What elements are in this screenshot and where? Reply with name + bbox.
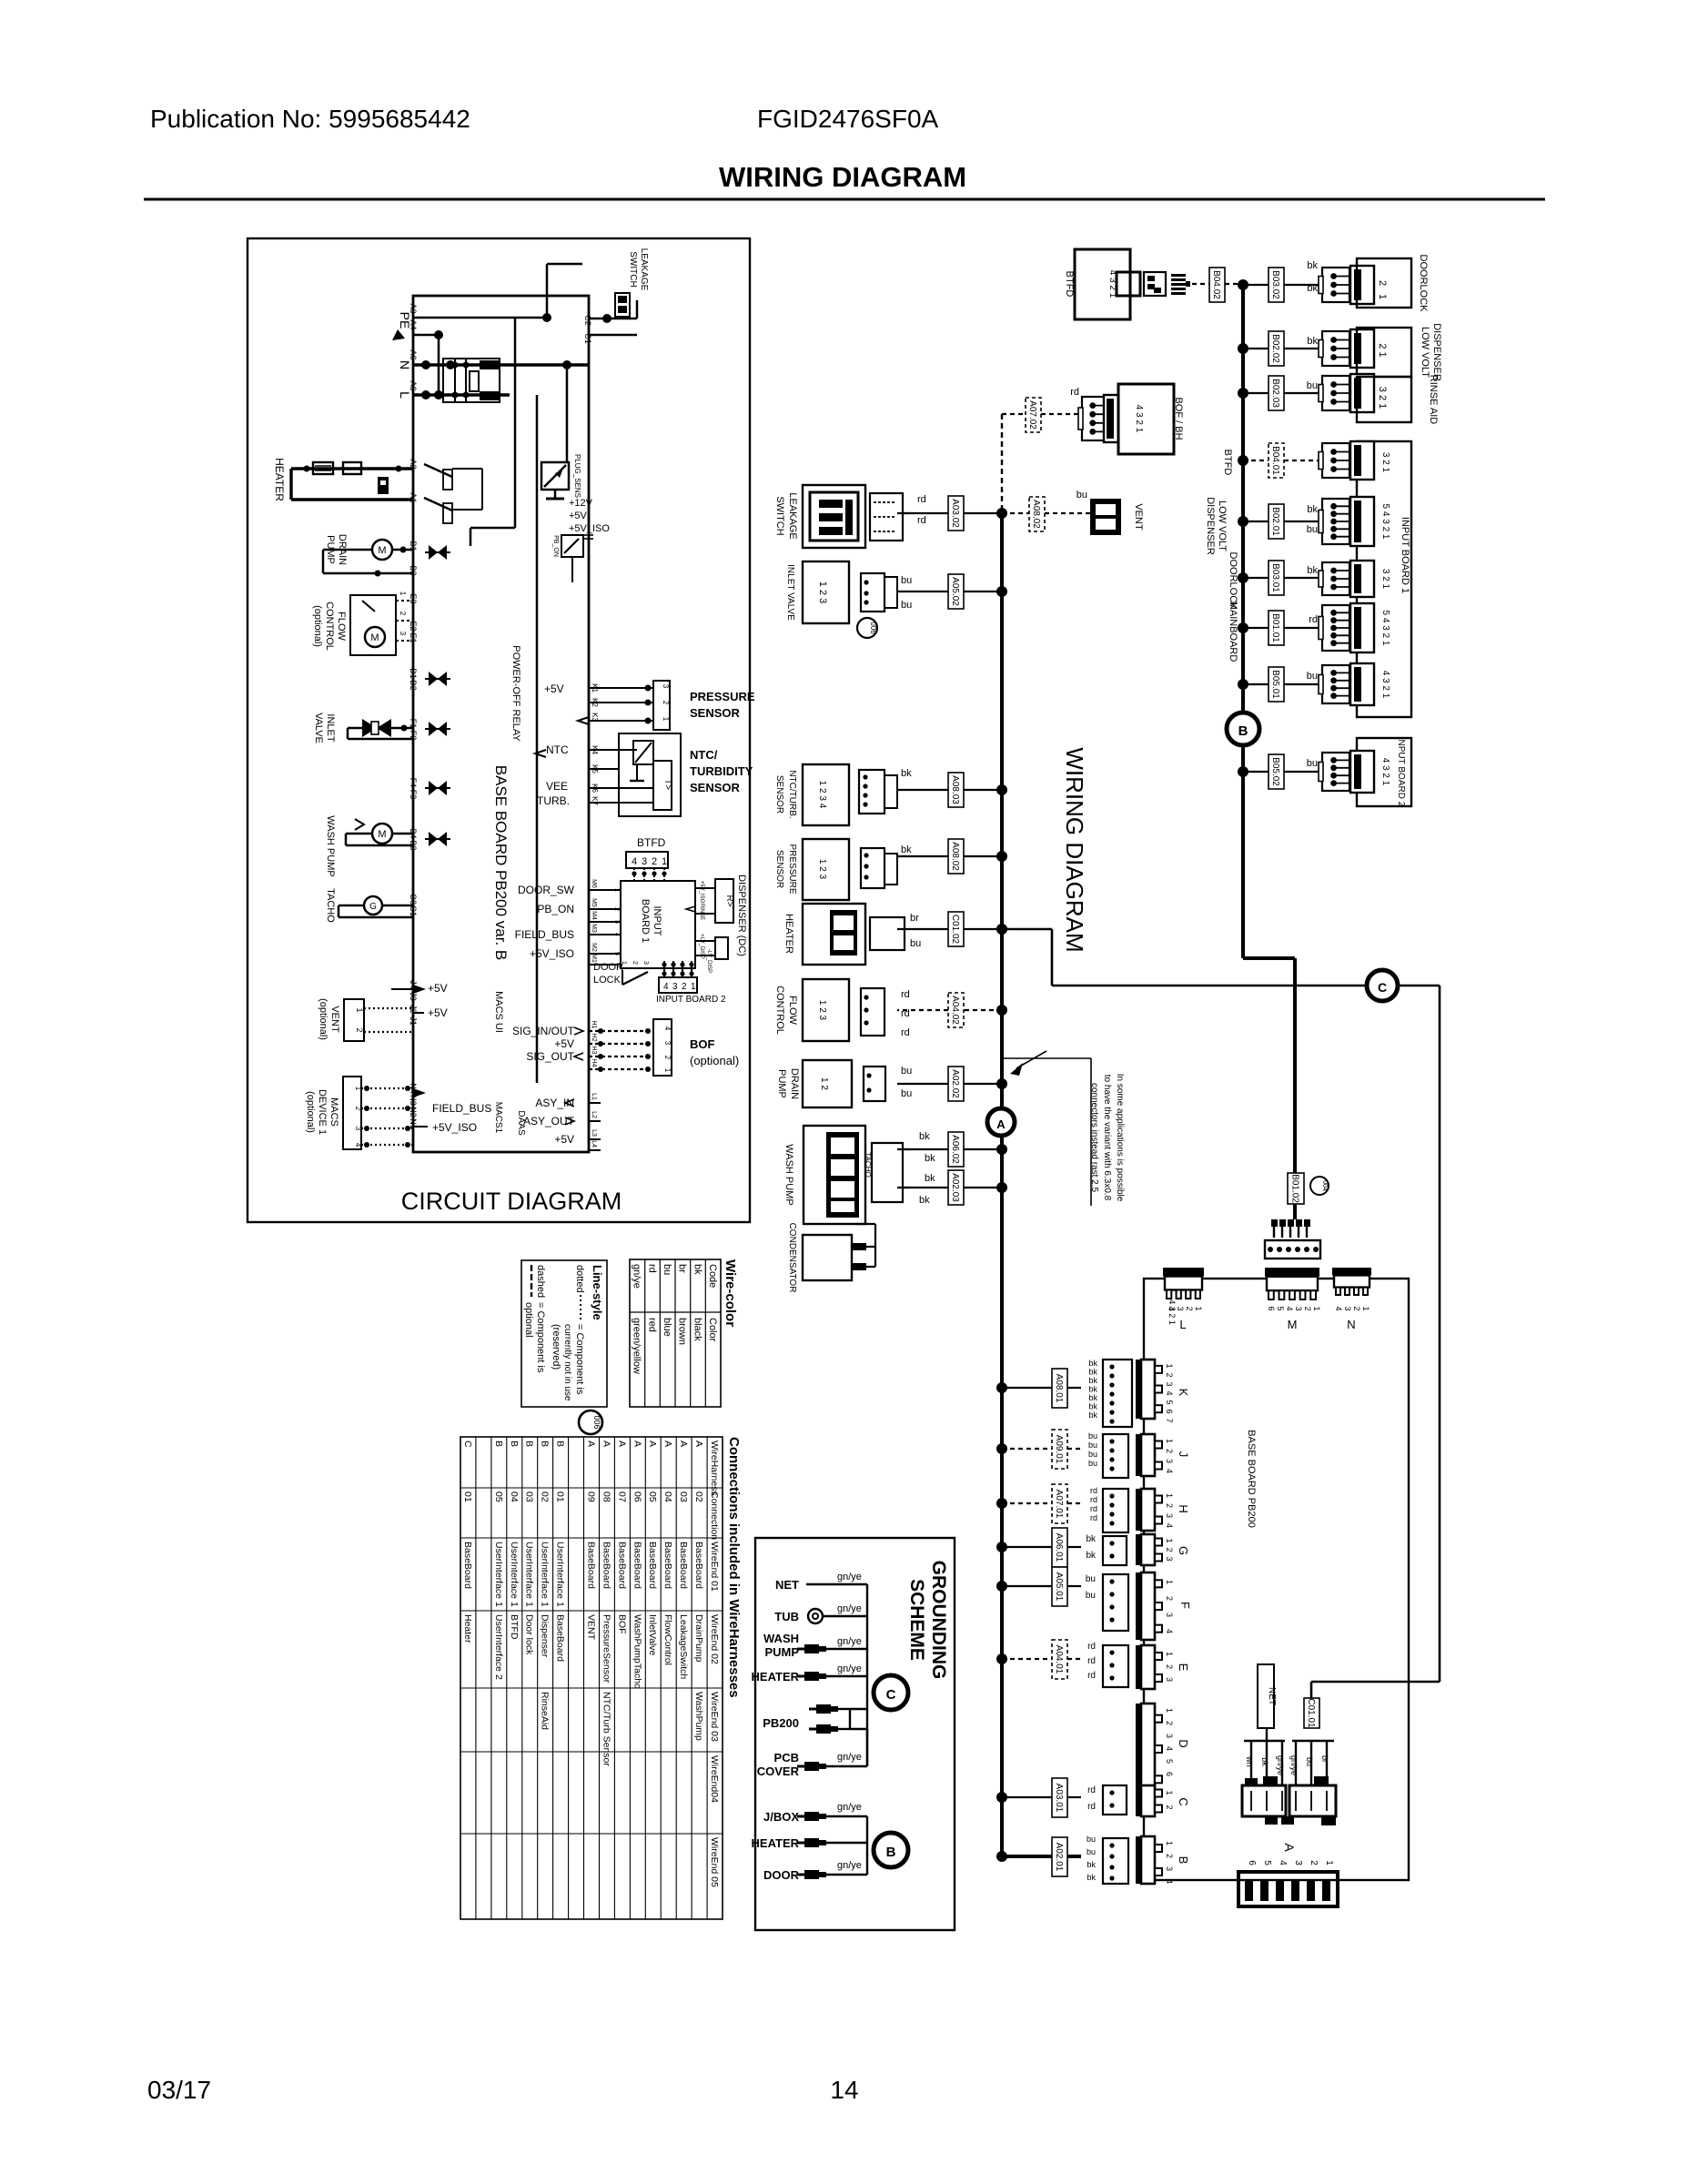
svg-text:F4: F4 — [409, 778, 418, 788]
svg-text:BASE BOARD PB200 var. B: BASE BOARD PB200 var. B — [492, 765, 510, 960]
svg-text:+5V: +5V — [544, 682, 564, 695]
svg-text:1: 1 — [1165, 1790, 1174, 1795]
svg-text:rd: rd — [901, 1027, 910, 1038]
svg-text:2: 2 — [663, 1056, 672, 1060]
svg-text:C2: C2 — [583, 315, 592, 326]
svg-text:bk: bk — [1088, 1385, 1097, 1394]
svg-text:SENSOR: SENSOR — [774, 850, 784, 888]
svg-text:A08.03: A08.03 — [950, 775, 960, 804]
svg-text:A08.01: A08.01 — [1054, 1374, 1064, 1403]
svg-text:rd: rd — [1087, 1642, 1096, 1652]
svg-text:FGID2476SF0A: FGID2476SF0A — [757, 105, 939, 133]
svg-text:bk: bk — [1307, 565, 1318, 576]
svg-text:A09.01: A09.01 — [1054, 1435, 1064, 1464]
svg-text:HEATER: HEATER — [752, 1836, 800, 1850]
svg-text:H: H — [1177, 1504, 1190, 1512]
svg-text:3: 3 — [1165, 1613, 1174, 1617]
svg-text:BaseBoard: BaseBoard — [678, 1542, 689, 1589]
svg-text:WASH PUMP: WASH PUMP — [325, 815, 336, 876]
svg-text:B04.02: B04.02 — [1211, 270, 1221, 299]
svg-text:H2: H2 — [591, 1034, 597, 1042]
svg-text:gn/ye: gn/ye — [837, 1802, 862, 1813]
svg-text:06: 06 — [632, 1491, 642, 1502]
svg-text:1 2 3: 1 2 3 — [817, 581, 828, 603]
svg-text:WireHarness: WireHarness — [709, 1441, 720, 1496]
svg-text:bk: bk — [1087, 1860, 1096, 1869]
svg-text:M2: M2 — [591, 943, 597, 952]
svg-text:bu: bu — [1086, 1574, 1096, 1584]
svg-text:UserInterface 1: UserInterface 1 — [524, 1542, 535, 1607]
svg-text:BaseBoard: BaseBoard — [662, 1542, 673, 1589]
svg-text:3 2 1: 3 2 1 — [1377, 387, 1388, 409]
svg-text:bk: bk — [692, 1264, 702, 1275]
svg-text:03: 03 — [678, 1491, 689, 1502]
svg-text:2: 2 — [1165, 1503, 1174, 1508]
svg-text:6: 6 — [1165, 1772, 1174, 1776]
svg-text:TACHO: TACHO — [864, 1152, 872, 1177]
svg-text:5: 5 — [1262, 1860, 1272, 1865]
svg-text:006: 006 — [869, 622, 877, 634]
svg-text:+5V: +5V — [554, 1133, 574, 1146]
svg-text:M: M — [378, 829, 386, 840]
svg-text:DRAIN: DRAIN — [789, 1068, 800, 1099]
svg-text:2: 2 — [1165, 1372, 1174, 1377]
svg-text:bu: bu — [1088, 1450, 1097, 1459]
svg-text:1 2: 1 2 — [819, 1077, 829, 1090]
svg-text:MACS1: MACS1 — [493, 1102, 503, 1134]
svg-text:MACS UI: MACS UI — [493, 991, 504, 1033]
svg-text:bu: bu — [901, 1088, 912, 1099]
svg-text:A08.02: A08.02 — [1031, 500, 1041, 529]
svg-text:E2: E2 — [409, 621, 418, 631]
svg-text:SENSOR: SENSOR — [690, 781, 741, 794]
svg-text:rd: rd — [917, 494, 926, 505]
svg-text:2: 2 — [682, 982, 687, 992]
svg-text:+5V_ISO: +5V_ISO — [530, 947, 574, 960]
svg-text:In some applications is possib: In some applications is possible — [1115, 1074, 1125, 1202]
svg-text:bu: bu — [1307, 758, 1318, 769]
svg-text:bk: bk — [901, 768, 912, 779]
svg-text:+5V: +5V — [428, 982, 448, 995]
svg-text:WASH: WASH — [763, 1632, 799, 1645]
svg-text:rd: rd — [1087, 1656, 1096, 1666]
svg-text:Dispenser: Dispenser — [540, 1614, 551, 1658]
svg-text:SWITCH: SWITCH — [628, 251, 638, 287]
svg-text:J/BOX: J/BOX — [763, 1810, 799, 1824]
svg-text:L4: L4 — [591, 1140, 597, 1148]
svg-text:5 4 3 2 1: 5 4 3 2 1 — [1380, 504, 1390, 540]
svg-text:bk: bk — [1088, 1402, 1097, 1411]
svg-text:4: 4 — [1165, 1390, 1174, 1395]
svg-text:3: 3 — [642, 961, 649, 965]
svg-text:bu: bu — [901, 575, 912, 586]
svg-text:N: N — [1347, 1318, 1355, 1331]
svg-text:bu: bu — [910, 938, 921, 949]
svg-text:B02.02: B02.02 — [1270, 334, 1280, 363]
svg-text:L: L — [1179, 1318, 1186, 1331]
svg-text:BTFD: BTFD — [1222, 450, 1233, 476]
svg-text:02: 02 — [540, 1491, 551, 1502]
svg-text:G1: G1 — [409, 905, 418, 916]
svg-text:HEATER: HEATER — [273, 458, 286, 501]
svg-text:01: 01 — [555, 1491, 566, 1502]
svg-text:D: D — [1177, 1739, 1190, 1747]
svg-text:6: 6 — [1267, 1306, 1276, 1310]
svg-text:L2: L2 — [591, 1111, 597, 1118]
svg-text:RINSE AID: RINSE AID — [1428, 375, 1439, 424]
svg-text:C: C — [1378, 980, 1387, 995]
svg-text:4: 4 — [663, 982, 669, 992]
svg-text:NTC/TURB.: NTC/TURB. — [787, 770, 797, 818]
svg-text:4: 4 — [1334, 1306, 1343, 1310]
svg-text:3: 3 — [1294, 1306, 1303, 1310]
svg-text:2: 2 — [652, 856, 657, 867]
svg-text:BaseBoard: BaseBoard — [555, 1614, 566, 1662]
svg-text:C: C — [462, 1441, 473, 1448]
svg-text:A1: A1 — [409, 492, 418, 502]
svg-text:bk: bk — [1086, 1551, 1097, 1561]
svg-text:Publication No: 5995685442: Publication No: 5995685442 — [150, 105, 470, 133]
svg-text:bk: bk — [1088, 1368, 1097, 1377]
svg-text:bk: bk — [1307, 336, 1318, 347]
svg-text:09: 09 — [586, 1491, 597, 1502]
svg-text:3: 3 — [399, 632, 407, 636]
svg-text:3: 3 — [1176, 1306, 1185, 1310]
svg-text:B04.01: B04.01 — [1270, 446, 1280, 475]
svg-text:BaseBoard: BaseBoard — [632, 1542, 642, 1589]
svg-text:InletValve: InletValve — [647, 1614, 658, 1655]
svg-text:bu: bu — [1088, 1459, 1097, 1468]
svg-text:to have the variant with 6.3x0: to have the variant with 6.3x0.8 — [1102, 1075, 1112, 1201]
svg-text:LEAKAGE: LEAKAGE — [787, 492, 798, 539]
svg-text:BASE BOARD PB200: BASE BOARD PB200 — [1246, 1430, 1257, 1528]
svg-text:C01.02: C01.02 — [950, 915, 960, 945]
svg-text:+5V: +5V — [428, 1006, 448, 1019]
svg-text:4 3 2 1: 4 3 2 1 — [1167, 1299, 1177, 1325]
svg-text:BaseBoard: BaseBoard — [601, 1542, 612, 1589]
svg-text:H1: H1 — [591, 1021, 597, 1029]
svg-text:G3: G3 — [409, 894, 418, 905]
svg-text:2: 2 — [1165, 1664, 1174, 1669]
svg-text:D1: D1 — [409, 668, 418, 679]
svg-text:LEAKAGE: LEAKAGE — [639, 248, 649, 291]
svg-text:3: 3 — [354, 1127, 362, 1131]
svg-text:PB_ON: PB_ON — [552, 535, 559, 557]
svg-text:R>: R> — [724, 895, 734, 906]
svg-text:3: 3 — [1165, 1513, 1174, 1518]
svg-text:1: 1 — [662, 856, 667, 867]
svg-text:03/17: 03/17 — [147, 2076, 211, 2104]
svg-text:3: 3 — [1165, 1459, 1174, 1463]
svg-text:black: black — [692, 1318, 702, 1341]
svg-text:(optional): (optional) — [312, 605, 323, 647]
svg-text:3: 3 — [1165, 1381, 1174, 1386]
svg-text:+5V: +5V — [554, 1037, 574, 1050]
svg-text:bu: bu — [1088, 1431, 1097, 1441]
svg-text:2: 2 — [1352, 1306, 1361, 1310]
svg-text:CIRCUIT DIAGRAM: CIRCUIT DIAGRAM — [401, 1188, 622, 1215]
svg-text:M3: M3 — [591, 924, 597, 933]
svg-text:2: 2 — [1185, 1306, 1194, 1310]
svg-text:G: G — [369, 902, 377, 912]
svg-text:TURB.: TURB. — [537, 794, 570, 807]
svg-text:K: K — [1177, 1389, 1190, 1397]
svg-text:K7: K7 — [591, 796, 599, 805]
svg-text:1: 1 — [662, 717, 670, 722]
svg-text:rd: rd — [1087, 1671, 1096, 1681]
svg-text:Heater: Heater — [462, 1614, 473, 1643]
svg-text:6: 6 — [1165, 1409, 1174, 1413]
svg-text:A03.02: A03.02 — [950, 499, 960, 528]
svg-text:5: 5 — [613, 952, 620, 955]
svg-text:INPUT BOARD 1: INPUT BOARD 1 — [1400, 517, 1410, 593]
svg-text:= Component is: = Component is — [535, 1302, 546, 1373]
svg-text:BaseBoard: BaseBoard — [586, 1542, 597, 1589]
svg-text:gn/ye: gn/ye — [837, 1663, 862, 1674]
svg-text:FLOW: FLOW — [787, 996, 798, 1025]
svg-text:2: 2 — [354, 1107, 362, 1111]
svg-text:LOW VOLT: LOW VOLT — [1217, 500, 1228, 551]
svg-text:3: 3 — [1165, 1677, 1174, 1682]
svg-text:L: L — [398, 391, 412, 399]
svg-text:3: 3 — [663, 1041, 672, 1046]
svg-text:HEATER: HEATER — [783, 914, 794, 954]
svg-text:2 1: 2 1 — [1377, 343, 1388, 357]
svg-text:bk: bk — [1088, 1410, 1097, 1420]
svg-text:B02.01: B02.01 — [1270, 507, 1280, 536]
svg-text:04: 04 — [509, 1491, 520, 1502]
svg-text:SENSOR: SENSOR — [774, 775, 784, 814]
svg-text:05: 05 — [647, 1491, 658, 1502]
svg-text:1: 1 — [1324, 1860, 1334, 1865]
svg-text:LOW VOLT: LOW VOLT — [1420, 327, 1430, 378]
svg-text:ASY_IN: ASY_IN — [535, 1097, 574, 1109]
svg-text:bk: bk — [1307, 260, 1318, 271]
svg-text:4: 4 — [663, 1026, 672, 1031]
svg-text:4: 4 — [1165, 1469, 1174, 1473]
svg-text:LOCK: LOCK — [593, 975, 622, 986]
svg-text:A04.02: A04.02 — [950, 996, 960, 1025]
svg-text:SIG_IN/OUT: SIG_IN/OUT — [512, 1025, 575, 1037]
svg-text:bu: bu — [901, 600, 912, 611]
svg-text:A02.03: A02.03 — [950, 1173, 960, 1202]
svg-text:3: 3 — [1293, 1860, 1303, 1865]
svg-text:-LV_DISP: -LV_DISP — [706, 949, 712, 973]
svg-text:3: 3 — [1165, 1734, 1174, 1738]
svg-text:E: E — [1177, 1663, 1190, 1672]
svg-text:Line-style: Line-style — [591, 1265, 604, 1320]
svg-text:4: 4 — [1285, 1306, 1294, 1310]
svg-text:dotted: dotted — [574, 1265, 585, 1293]
svg-text:1: 1 — [1165, 1493, 1174, 1498]
svg-text:bk: bk — [1088, 1393, 1097, 1402]
svg-text:UserInterface 1: UserInterface 1 — [509, 1542, 520, 1607]
svg-text:bk: bk — [919, 1195, 930, 1206]
svg-text:A02.01: A02.01 — [1054, 1843, 1064, 1872]
svg-text:bu: bu — [662, 1264, 672, 1275]
svg-text:5: 5 — [1165, 1759, 1174, 1764]
svg-text:L1: L1 — [591, 1093, 597, 1100]
svg-text:T>: T> — [662, 779, 672, 790]
svg-text:TACHO: TACHO — [325, 888, 336, 923]
svg-text:A06.01: A06.01 — [1054, 1533, 1064, 1562]
svg-text:bu: bu — [1086, 1591, 1096, 1601]
svg-text:NTC: NTC — [546, 743, 569, 756]
svg-text:rd: rd — [1087, 1785, 1096, 1795]
svg-text:03: 03 — [524, 1491, 535, 1502]
svg-text:DOOR: DOOR — [593, 962, 623, 973]
svg-text:NTC/Turb Sensor: NTC/Turb Sensor — [601, 1692, 612, 1766]
svg-text:05: 05 — [493, 1491, 504, 1502]
svg-text:Connections included in WireHa: Connections included in WireHarnesses — [726, 1437, 742, 1698]
svg-text:LeakageSwitch: LeakageSwitch — [678, 1614, 689, 1679]
svg-text:C01.01: C01.01 — [1306, 1698, 1316, 1728]
svg-text:DOORLOCK: DOORLOCK — [1418, 255, 1429, 313]
svg-text:2: 2 — [1303, 1306, 1312, 1310]
svg-text:SIG_OUT: SIG_OUT — [526, 1050, 574, 1063]
svg-text:PUMP: PUMP — [776, 1069, 787, 1098]
svg-text:1: 1 — [1165, 1652, 1174, 1656]
svg-text:gn/ye: gn/ye — [837, 1636, 862, 1647]
svg-text:PE: PE — [398, 312, 412, 329]
svg-text:B: B — [555, 1441, 566, 1447]
svg-text:H3: H3 — [591, 1046, 597, 1055]
svg-text:TURBIDITY: TURBIDITY — [690, 764, 753, 778]
svg-text:C: C — [886, 1687, 896, 1703]
svg-text:F: F — [1178, 1602, 1192, 1609]
svg-text:green/yellow: green/yellow — [632, 1318, 642, 1374]
svg-text:A03.01: A03.01 — [1054, 1784, 1064, 1813]
svg-text:rd: rd — [646, 1264, 657, 1273]
svg-text:bk: bk — [925, 1153, 935, 1164]
svg-text:FlowControl: FlowControl — [662, 1614, 673, 1665]
svg-text:M: M — [1288, 1318, 1298, 1331]
svg-text:02: 02 — [693, 1491, 704, 1502]
svg-text:1: 1 — [1165, 1708, 1174, 1713]
svg-text:WireEnd 02: WireEnd 02 — [709, 1614, 720, 1664]
svg-text:1: 1 — [691, 982, 696, 992]
svg-text:currently not in use: currently not in use — [562, 1324, 572, 1401]
svg-text:B01.02: B01.02 — [1290, 1174, 1300, 1203]
svg-text:4 3 2 1: 4 3 2 1 — [1134, 405, 1144, 433]
svg-text:DISPENSER: DISPENSER — [1205, 497, 1216, 555]
svg-text:1: 1 — [1194, 1306, 1203, 1310]
svg-text:connectors instead rast 2.5: connectors instead rast 2.5 — [1089, 1083, 1099, 1193]
svg-text:3: 3 — [613, 920, 620, 924]
svg-text:(optional): (optional) — [318, 998, 329, 1040]
svg-text:A07.01: A07.01 — [1054, 1490, 1064, 1519]
svg-text:CONTROL: CONTROL — [324, 602, 335, 651]
svg-text:rd: rd — [1087, 1802, 1096, 1812]
svg-text:2: 2 — [399, 612, 407, 616]
svg-text:dashed: dashed — [535, 1265, 546, 1298]
svg-text:Color: Color — [707, 1318, 718, 1342]
svg-text:3 2 1: 3 2 1 — [1380, 452, 1390, 473]
svg-text:FLOW: FLOW — [336, 612, 347, 641]
svg-text:rd: rd — [917, 515, 926, 526]
svg-text:3: 3 — [672, 982, 678, 992]
svg-text:rd: rd — [1090, 1486, 1097, 1495]
svg-text:gn/ye: gn/ye — [837, 1603, 862, 1614]
svg-text:A6: A6 — [409, 380, 418, 390]
svg-text:Wire-color: Wire-color — [723, 1259, 738, 1327]
svg-text:2: 2 — [613, 907, 620, 911]
svg-text:4: 4 — [1165, 1746, 1174, 1751]
svg-text:PCB: PCB — [774, 1751, 799, 1764]
svg-text:M4: M4 — [591, 911, 597, 920]
svg-text:NET: NET — [775, 1578, 799, 1592]
svg-text:bk: bk — [1088, 1376, 1097, 1385]
svg-text:B01.01: B01.01 — [1270, 613, 1280, 642]
svg-text:bu: bu — [1305, 1757, 1314, 1766]
svg-text:WIRING DIAGRAM: WIRING DIAGRAM — [719, 161, 966, 193]
svg-text:3: 3 — [1165, 1556, 1174, 1561]
svg-text:B03.02: B03.02 — [1270, 270, 1280, 299]
svg-text:006: 006 — [592, 1415, 601, 1429]
svg-text:3: 3 — [1343, 1306, 1352, 1310]
svg-text:+5V_ISO: +5V_ISO — [699, 881, 704, 904]
svg-text:1: 1 — [1165, 1363, 1174, 1368]
svg-text:bk: bk — [1088, 1359, 1097, 1368]
svg-text:bu: bu — [1087, 1835, 1096, 1844]
svg-text:bk: bk — [925, 1173, 935, 1184]
svg-text:TUB: TUB — [774, 1610, 799, 1623]
svg-text:01: 01 — [462, 1491, 473, 1502]
svg-text:VEE: VEE — [546, 780, 568, 793]
svg-text:5 4 3 2 1: 5 4 3 2 1 — [1380, 611, 1390, 646]
svg-text:bu: bu — [1307, 380, 1318, 391]
svg-text:SENSOR: SENSOR — [690, 706, 741, 720]
svg-text:BTFD: BTFD — [509, 1614, 520, 1640]
svg-text:br: br — [1320, 1755, 1329, 1763]
svg-text:PB200: PB200 — [763, 1716, 799, 1730]
svg-text:A6: A6 — [409, 349, 418, 359]
svg-text:rd: rd — [1090, 1504, 1097, 1513]
svg-text:INPUT: INPUT — [652, 906, 662, 936]
svg-text:DrainPump: DrainPump — [693, 1614, 704, 1663]
svg-text:bu: bu — [1088, 1441, 1097, 1450]
svg-text:BaseBoard: BaseBoard — [647, 1542, 658, 1589]
svg-text:INLET: INLET — [325, 713, 336, 742]
svg-text:rd: rd — [1090, 1495, 1097, 1504]
svg-text:A: A — [1282, 1843, 1297, 1852]
svg-text:WashPumpTacho: WashPumpTacho — [632, 1614, 642, 1689]
svg-text:INPUT BOARD 2: INPUT BOARD 2 — [656, 995, 726, 1005]
svg-text:CONTROL: CONTROL — [774, 986, 785, 1035]
svg-text:RINSE: RINSE — [699, 904, 704, 920]
svg-text:ASY_OUT: ASY_OUT — [523, 1115, 575, 1127]
svg-text:WASH PUMP: WASH PUMP — [783, 1144, 794, 1205]
svg-text:4: 4 — [632, 856, 637, 867]
svg-text:bu: bu — [1076, 490, 1087, 500]
svg-text:+12V: +12V — [569, 498, 593, 509]
svg-text:1 2 3: 1 2 3 — [817, 1000, 827, 1021]
svg-text:rd: rd — [901, 1008, 910, 1019]
svg-text:1: 1 — [621, 961, 627, 965]
svg-text:gn/ye: gn/ye — [837, 1572, 862, 1582]
svg-text:1: 1 — [1165, 1538, 1174, 1542]
svg-text:04: 04 — [662, 1491, 673, 1502]
svg-text:NTC/: NTC/ — [690, 748, 718, 762]
svg-text:14: 14 — [830, 2076, 858, 2104]
svg-text:1: 1 — [663, 1068, 672, 1073]
svg-text:DOOR_SW: DOOR_SW — [518, 884, 575, 896]
svg-text:5: 5 — [1165, 1400, 1174, 1404]
svg-text:bk: bk — [1087, 1873, 1096, 1882]
svg-text:NET: NET — [1267, 1687, 1277, 1705]
svg-text:DISPENSER: DISPENSER — [1431, 323, 1442, 381]
svg-text:MAINBOARD: MAINBOARD — [1228, 602, 1238, 662]
